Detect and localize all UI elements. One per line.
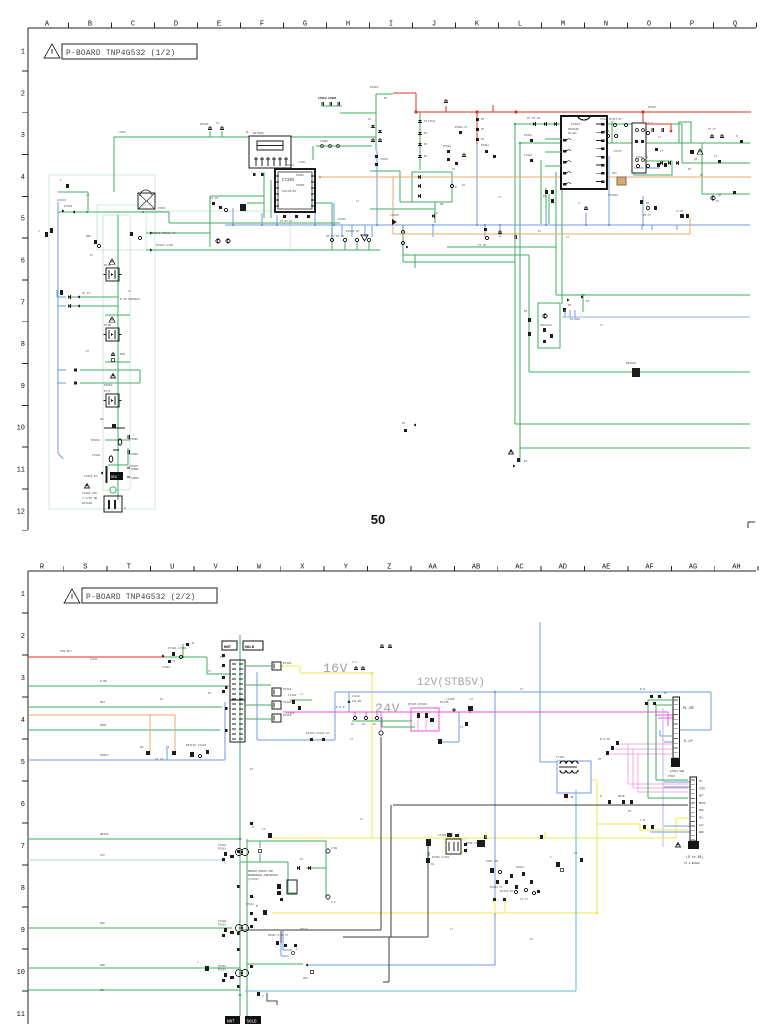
svg-text:R7: R7 — [700, 174, 704, 177]
svg-text:R7025: R7025 — [338, 218, 346, 221]
svg-text:R7 C7: R7 C7 — [643, 214, 651, 217]
svg-text:T: T — [60, 179, 62, 182]
svg-text:P-BOARD TNP4G532 (1/2): P-BOARD TNP4G532 (1/2) — [66, 50, 176, 58]
svg-text:D7060: D7060 — [104, 384, 113, 387]
svg-text:SCL: SCL — [699, 817, 704, 820]
svg-text:C: C — [578, 202, 580, 205]
svg-text:7: 7 — [21, 843, 25, 851]
svg-text:C7108: C7108 — [524, 154, 532, 157]
svg-text:C7: C7 — [172, 660, 176, 663]
svg-text:R7: R7 — [568, 304, 572, 307]
svg-text:E7001 SUB: E7001 SUB — [670, 770, 684, 773]
svg-text:R7060: R7060 — [91, 439, 100, 442]
svg-text:11: 11 — [17, 1011, 25, 1019]
svg-text:STB5V: STB5V — [131, 477, 139, 480]
svg-text:D7: D7 — [424, 155, 428, 158]
svg-text:R: R — [736, 135, 738, 138]
svg-text:R7010: R7010 — [443, 145, 451, 148]
svg-text:R7: R7 — [646, 202, 650, 205]
svg-text:OVP: OVP — [120, 353, 125, 356]
svg-text:F7101 L7101: F7101 L7101 — [168, 647, 187, 650]
svg-text:N: N — [604, 21, 608, 29]
svg-text:4.7/50 SB: 4.7/50 SB — [82, 496, 97, 500]
svg-text:[C7121]: [C7121] — [248, 877, 259, 881]
svg-text:49: 49 — [570, 796, 574, 799]
svg-text:STB9V: STB9V — [131, 468, 139, 471]
svg-text:P7: P7 — [664, 692, 668, 695]
svg-text:C7 R7: C7 R7 — [478, 244, 487, 247]
svg-text:0.5: 0.5 — [331, 901, 336, 904]
svg-text:9: 9 — [21, 383, 25, 391]
svg-text:C7: C7 — [452, 168, 456, 171]
svg-text:C7030: C7030 — [390, 214, 399, 217]
svg-text:TRANS: TRANS — [296, 184, 305, 187]
svg-text:RESONANCE CONVERTER: RESONANCE CONVERTER — [248, 874, 278, 877]
svg-text:L: L — [518, 21, 522, 29]
svg-text:STB-RLY: STB-RLY — [60, 650, 72, 653]
svg-text:C7062 R7: C7062 R7 — [84, 475, 98, 478]
svg-text:P0: P0 — [140, 746, 144, 749]
svg-text:R7: R7 — [470, 698, 474, 701]
svg-text:5: 5 — [262, 995, 264, 998]
svg-text:D7 D7: D7 D7 — [82, 292, 91, 295]
svg-text:R7: R7 — [598, 758, 602, 761]
svg-text:Q7113: Q7113 — [246, 903, 254, 906]
svg-text:D7101: D7101 — [283, 662, 292, 665]
svg-text:AE: AE — [602, 564, 610, 572]
svg-text:VCC: VCC — [100, 854, 105, 857]
svg-text:R: R — [252, 966, 254, 969]
svg-text:W: W — [257, 564, 262, 572]
svg-text:Q7: Q7 — [716, 200, 720, 203]
svg-text:R7161: R7161 — [516, 866, 524, 869]
svg-text:1: 1 — [550, 856, 552, 859]
svg-text:R7: R7 — [481, 128, 485, 131]
svg-text:C: C — [296, 948, 298, 951]
svg-text:E7: E7 — [524, 460, 528, 463]
svg-text:C7: C7 — [498, 196, 502, 199]
svg-text:4: 4 — [21, 717, 25, 725]
svg-text:AF: AF — [645, 564, 653, 572]
svg-text:R7167 0.22 C7: R7167 0.22 C7 — [268, 934, 289, 937]
svg-text:PC7C: PC7C — [104, 390, 111, 393]
svg-text:Q7105 Q7106: Q7105 Q7106 — [408, 703, 427, 706]
svg-text:STBY SW: STBY SW — [486, 860, 498, 863]
svg-text:Q7: Q7 — [718, 194, 722, 197]
svg-text:AB: AB — [472, 564, 480, 572]
svg-text:R: R — [40, 564, 45, 572]
svg-text:PL-RE: PL-RE — [683, 707, 694, 711]
svg-text:STB5V: STB5V — [100, 754, 109, 757]
svg-text:C7118 R7117 D7: C7118 R7117 D7 — [600, 118, 622, 121]
svg-text:D7013 R7019 C7: D7013 R7019 C7 — [152, 232, 176, 235]
svg-text:F: F — [260, 21, 264, 29]
svg-text:C7101: C7101 — [571, 123, 580, 126]
svg-text:S7001: S7001 — [296, 174, 304, 177]
svg-text:L7: L7 — [714, 155, 718, 158]
svg-text:R: R — [252, 826, 254, 829]
svg-text:PC7A: PC7A — [104, 264, 111, 267]
svg-text:H: H — [346, 21, 350, 29]
svg-text:Q: Q — [733, 21, 737, 29]
svg-text:DRIVE: DRIVE — [100, 833, 109, 836]
svg-text:C7: C7 — [600, 324, 604, 327]
svg-text:L7001: L7001 — [118, 131, 126, 134]
svg-text:P-BOARD TNP4G532 (2/2): P-BOARD TNP4G532 (2/2) — [86, 594, 196, 602]
svg-text:9: 9 — [21, 927, 25, 935]
svg-text:DET: DET — [699, 795, 704, 798]
svg-text:D7: D7 — [586, 300, 590, 303]
svg-text:AD: AD — [559, 564, 567, 572]
svg-text:R7: R7 — [86, 350, 90, 353]
svg-text:Q7001: Q7001 — [481, 144, 489, 147]
svg-text:C7102: C7102 — [162, 666, 170, 669]
svg-text:D7 D7 D7: D7 D7 D7 — [527, 117, 541, 120]
svg-text:R7: R7 — [384, 97, 388, 100]
svg-text:1: 1 — [21, 49, 25, 57]
svg-text:FB: FB — [100, 989, 104, 992]
svg-text:D7: D7 — [688, 168, 692, 171]
svg-text:C7 R7: C7 R7 — [210, 197, 219, 200]
svg-text:R7: R7 — [462, 184, 466, 187]
svg-text:J: J — [432, 21, 436, 29]
svg-text:3: 3 — [21, 675, 25, 683]
svg-text:REG: REG — [111, 475, 117, 479]
svg-text:C C: C C — [352, 661, 357, 664]
svg-text:TH7001: TH7001 — [608, 194, 618, 197]
svg-text:00: 00 — [373, 723, 376, 726]
svg-text:L7105: L7105 — [446, 698, 455, 701]
svg-text:D7103: D7103 — [283, 701, 292, 704]
svg-text:C7: C7 — [658, 136, 662, 139]
svg-text:R IC-PROTECT: R IC-PROTECT — [120, 298, 140, 301]
svg-text:L7 R7: L7 R7 — [676, 210, 684, 213]
svg-text:L7: L7 — [86, 194, 90, 197]
svg-text:11: 11 — [17, 467, 25, 475]
svg-text:C: C — [253, 896, 255, 899]
svg-text:C7: C7 — [216, 122, 220, 125]
svg-text:J: J — [38, 230, 40, 233]
svg-text:D7: D7 — [402, 422, 406, 425]
svg-text:T: T — [127, 564, 131, 572]
svg-text:C7 C7: C7 C7 — [520, 898, 528, 901]
svg-text:PC7001: PC7001 — [570, 318, 580, 321]
svg-text:R7: R7 — [628, 810, 632, 813]
svg-text:X: X — [300, 564, 305, 572]
svg-text:L7: L7 — [300, 693, 304, 696]
svg-text:C7 C7: C7 C7 — [155, 758, 164, 761]
svg-text:DET: DET — [100, 701, 105, 704]
svg-text:B7: B7 — [543, 195, 547, 198]
svg-text:R7: R7 — [250, 768, 254, 771]
svg-text:C7010 L7001: C7010 L7001 — [318, 97, 337, 100]
svg-text:STR-W6753: STR-W6753 — [282, 190, 296, 193]
svg-text:O: O — [647, 21, 651, 29]
svg-text:R 9.7K: R 9.7K — [600, 738, 610, 741]
svg-text:3: 3 — [21, 132, 25, 140]
svg-text:2: 2 — [21, 633, 25, 641]
svg-text:D7001: D7001 — [370, 86, 379, 89]
svg-text:P: P — [690, 21, 694, 29]
svg-text:C7: C7 — [360, 818, 364, 821]
svg-text:F7101: F7101 — [90, 658, 98, 661]
svg-text:R7: R7 — [90, 254, 94, 257]
svg-text:RL: RL — [246, 131, 250, 134]
svg-text:5V: 5V — [699, 780, 703, 783]
svg-text:TO A-BOARD: TO A-BOARD — [684, 862, 700, 865]
svg-text:R7005: R7005 — [200, 123, 209, 126]
svg-text:5: 5 — [21, 216, 25, 224]
svg-text:C7203: C7203 — [298, 161, 306, 164]
svg-text:RL7001: RL7001 — [253, 132, 264, 135]
svg-text:C7: C7 — [128, 290, 132, 293]
svg-text:R7 R7 R7 R7: R7 R7 R7 R7 — [326, 235, 345, 238]
svg-text:A: A — [45, 21, 50, 29]
svg-text:F7001: F7001 — [64, 205, 73, 208]
svg-text:E-LP: E-LP — [684, 740, 693, 744]
svg-text:2: 2 — [21, 90, 25, 98]
svg-text:R7: R7 — [481, 118, 485, 121]
svg-text:FB7001: FB7001 — [626, 362, 636, 365]
svg-text:C7: C7 — [450, 928, 454, 931]
svg-text:P1: P1 — [166, 746, 170, 749]
svg-text:C7103 REG 9V: C7103 REG 9V — [438, 834, 458, 837]
svg-text:KA7632: KA7632 — [82, 502, 92, 505]
svg-text:R7020 1/2W: R7020 1/2W — [156, 243, 173, 247]
svg-text:ZD: ZD — [440, 203, 444, 206]
svg-text:7: 7 — [21, 299, 25, 307]
svg-text:R7: R7 — [530, 938, 534, 941]
svg-text:D7032 R7: D7032 R7 — [346, 230, 360, 233]
svg-text:S: S — [83, 564, 87, 572]
svg-text:10: 10 — [431, 863, 435, 866]
svg-text:SOLD: SOLD — [245, 646, 255, 650]
svg-text:10: 10 — [17, 425, 25, 433]
svg-text:GND: GND — [100, 964, 105, 967]
svg-text:R7: R7 — [582, 294, 586, 297]
svg-text:00: 00 — [351, 723, 354, 726]
svg-text:AA: AA — [428, 564, 437, 572]
svg-text:V: V — [213, 564, 218, 572]
svg-text:R7133: R7133 — [218, 924, 226, 927]
svg-text:C7110: C7110 — [286, 712, 295, 715]
svg-text:C7 C7: C7 C7 — [708, 128, 716, 131]
svg-text:OSC: OSC — [100, 922, 105, 925]
svg-text:D7: D7 — [368, 118, 372, 121]
svg-text:PC7B: PC7B — [104, 324, 111, 327]
svg-text:R: R — [192, 642, 194, 645]
svg-text:50: 50 — [371, 512, 385, 527]
svg-text:AG: AG — [689, 564, 697, 572]
svg-text:L7002: L7002 — [320, 140, 328, 143]
svg-text:B: B — [88, 21, 92, 29]
svg-text:C: C — [131, 21, 135, 29]
svg-text:STBY: STBY — [699, 787, 706, 790]
svg-text:M: M — [561, 21, 565, 29]
svg-text:16V: 16V — [323, 661, 348, 676]
svg-text:C7 R7 C7: C7 R7 C7 — [280, 220, 293, 223]
svg-text:R R: R R — [640, 688, 645, 691]
svg-text:L7: L7 — [262, 828, 266, 831]
svg-text:Q7: Q7 — [694, 158, 698, 161]
svg-text:R7: R7 — [160, 698, 164, 701]
svg-text:⚠C7070: ⚠C7070 — [128, 464, 138, 468]
svg-text:MUTE: MUTE — [699, 802, 706, 805]
svg-text:R65: R65 — [86, 235, 91, 238]
svg-text:R7133: R7133 — [218, 848, 226, 851]
svg-text:HNT: HNT — [224, 646, 232, 650]
svg-text:C7: C7 — [350, 738, 354, 741]
svg-text:MOSFET/IRFPS 2SK: MOSFET/IRFPS 2SK — [248, 869, 273, 873]
svg-text:C C: C C — [648, 122, 653, 125]
svg-text:R7021: R7021 — [286, 164, 294, 167]
svg-text:MIP2E2D: MIP2E2D — [568, 128, 579, 131]
svg-text:R7133: R7133 — [218, 969, 226, 972]
svg-text:C7: C7 — [574, 852, 578, 855]
svg-text:FB7101 C7125: FB7101 C7125 — [186, 744, 206, 747]
svg-text:D7102: D7102 — [283, 688, 292, 691]
svg-text:C7: C7 — [566, 236, 570, 239]
svg-text:0F: 0F — [303, 977, 307, 980]
svg-text:HNT: HNT — [227, 1021, 235, 1024]
svg-text:C7015: C7015 — [380, 158, 388, 161]
svg-text:R7120 C7121 Z7: R7120 C7121 Z7 — [306, 732, 330, 735]
svg-text:R7: R7 — [300, 858, 304, 861]
svg-text:D7: D7 — [424, 132, 428, 135]
svg-text:Q7: Q7 — [524, 310, 528, 313]
svg-text:12: 12 — [17, 508, 25, 516]
svg-text:C7061: C7061 — [92, 454, 101, 457]
svg-text:SDA: SDA — [699, 809, 704, 812]
svg-text:C7: C7 — [460, 726, 464, 729]
svg-text:C R: C R — [640, 819, 645, 822]
svg-text:C7202: C7202 — [282, 179, 295, 183]
svg-text:R R R: R R R — [336, 706, 345, 709]
svg-text:8: 8 — [21, 885, 25, 893]
svg-text:2SC2412: 2SC2412 — [540, 324, 552, 327]
svg-text:Q7102 R7: Q7102 R7 — [636, 156, 649, 159]
svg-text:P7001: P7001 — [668, 775, 676, 778]
svg-text:R7150 C7151: R7150 C7151 — [432, 856, 450, 859]
svg-text:MUTE: MUTE — [618, 795, 625, 798]
svg-text:5: 5 — [21, 759, 25, 767]
svg-text:L7140: L7140 — [352, 695, 360, 698]
svg-text:G: G — [303, 21, 307, 29]
svg-text:R7: R7 — [481, 138, 485, 141]
svg-text:P-ON: P-ON — [100, 680, 107, 683]
svg-text:R7115: R7115 — [614, 150, 622, 153]
svg-text:NTC: NTC — [612, 172, 617, 175]
svg-text:Y: Y — [344, 564, 349, 572]
svg-text:6: 6 — [21, 258, 25, 266]
svg-text:4: 4 — [21, 174, 25, 182]
svg-text:K: K — [475, 21, 480, 29]
svg-text:R7003: R7003 — [158, 207, 166, 210]
svg-text:I: I — [389, 21, 393, 29]
svg-text:R7: R7 — [208, 692, 212, 695]
svg-text:AH: AH — [732, 564, 740, 572]
svg-text:D7: D7 — [424, 143, 428, 146]
svg-text:0: 0 — [306, 977, 308, 980]
svg-text:00: 00 — [362, 723, 365, 726]
svg-text:C7090 25V: C7090 25V — [82, 492, 97, 495]
svg-text:L: L — [197, 961, 199, 964]
svg-text:1: 1 — [21, 591, 25, 599]
svg-text:8: 8 — [21, 341, 25, 349]
svg-text:C7: C7 — [520, 688, 524, 691]
svg-text:6: 6 — [21, 801, 25, 809]
svg-text:T7101: T7101 — [556, 756, 565, 759]
svg-text:E: E — [217, 21, 221, 29]
svg-text:R R: R R — [604, 130, 609, 133]
svg-text:Z: Z — [387, 564, 391, 572]
svg-text:24V: 24V — [375, 701, 400, 716]
svg-text:PROT: PROT — [100, 724, 107, 727]
svg-text:C7: C7 — [356, 200, 360, 203]
svg-text:R7106: R7106 — [524, 134, 532, 137]
svg-text:R7008 C7: R7008 C7 — [455, 126, 468, 129]
svg-text:(D to 4B): (D to 4B) — [686, 855, 703, 859]
svg-text:0.5W: 0.5W — [331, 847, 338, 850]
svg-text:R7: R7 — [538, 230, 542, 233]
svg-text:AC: AC — [515, 564, 523, 572]
svg-text:SOLD: SOLD — [247, 1021, 258, 1024]
svg-text:D: D — [436, 212, 438, 215]
svg-text:D7101: D7101 — [428, 120, 436, 123]
svg-text:D: D — [174, 21, 178, 29]
svg-text:R7145: R7145 — [440, 701, 449, 704]
svg-text:12V-SW: 12V-SW — [352, 700, 362, 703]
svg-text:M: M — [256, 905, 258, 908]
svg-text:R: R — [455, 186, 457, 189]
svg-text:R: R — [600, 795, 602, 798]
svg-text:C7: C7 — [660, 150, 664, 153]
svg-text:L7102: L7102 — [288, 694, 297, 697]
svg-text:GND: GND — [699, 831, 704, 834]
svg-text:Q7110 R7: Q7110 R7 — [500, 890, 514, 893]
svg-text:VR: VR — [100, 418, 104, 421]
svg-text:U: U — [170, 564, 174, 572]
svg-text:12V(STB5V): 12V(STB5V) — [417, 677, 485, 689]
svg-text:R7167: R7167 — [300, 928, 308, 931]
svg-text:R7162 C7: R7162 C7 — [490, 886, 503, 889]
svg-text:12V: 12V — [699, 824, 704, 827]
svg-text:R7116: R7116 — [648, 106, 656, 109]
svg-text:10: 10 — [17, 969, 25, 977]
svg-text:C7: C7 — [208, 670, 212, 673]
svg-text:SW-REG: SW-REG — [568, 132, 577, 135]
